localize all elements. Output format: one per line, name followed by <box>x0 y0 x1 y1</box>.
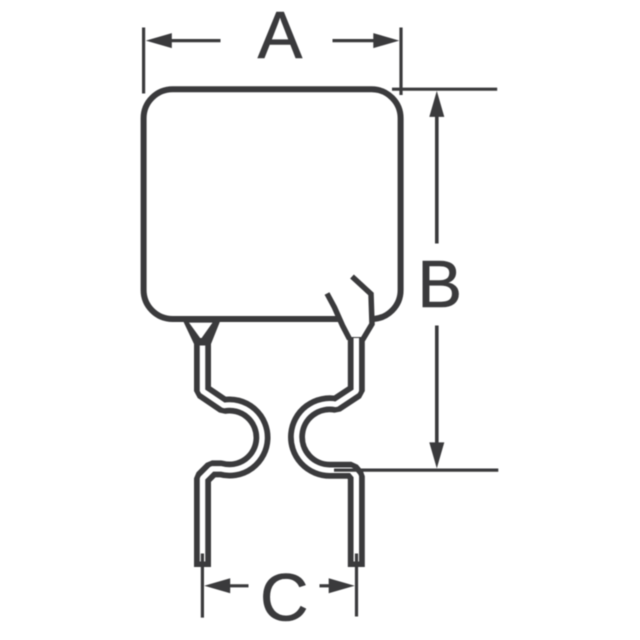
right lead wire core <box>297 338 357 562</box>
dimension C right arrow <box>320 584 330 587</box>
svg-text:C: C <box>260 561 308 636</box>
dimension A right arrow <box>333 39 374 42</box>
dimension B bottom extension line <box>334 469 498 472</box>
svg-text:A: A <box>258 0 303 73</box>
dimension A left extension line <box>142 28 145 94</box>
dimension B bottom arrowhead <box>429 442 444 468</box>
dimension B top arrowhead <box>429 91 444 117</box>
dimension A left arrow <box>172 39 221 42</box>
component body <box>144 89 401 319</box>
dimension C left arrow <box>230 584 249 587</box>
dimension A right extension line <box>399 28 402 96</box>
svg-text:B: B <box>417 247 462 322</box>
dimension B line upper segment <box>435 114 439 244</box>
body bottom edge gap <box>339 314 371 325</box>
dimension C right extension line <box>355 554 358 617</box>
left lead wire outline <box>203 338 263 567</box>
dimension C left extension line <box>201 554 204 618</box>
left lead wire core <box>203 346 263 562</box>
right lead internal branch <box>352 277 372 341</box>
left lead funnel white notch <box>189 323 213 339</box>
left lead weld funnel <box>181 317 222 345</box>
dimension B top extension line <box>392 88 497 91</box>
right lead wire outline <box>297 337 357 567</box>
dimension B line lower segment <box>435 326 439 446</box>
left lead internal branch <box>327 294 350 340</box>
